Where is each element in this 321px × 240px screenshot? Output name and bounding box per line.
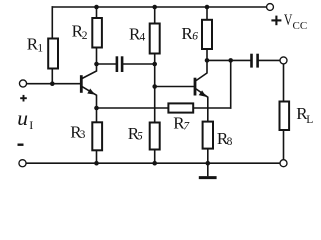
wire divider node to Q2 base <box>155 86 194 88</box>
wire R3 bottom lead <box>96 150 98 163</box>
node Q1 collector <box>94 62 99 67</box>
resistor R7 <box>168 103 193 112</box>
wire R3 top lead <box>96 108 98 122</box>
wire R5 bottom lead <box>154 150 156 164</box>
wire C1 left <box>97 63 116 65</box>
wire input to Q1 base <box>27 83 81 85</box>
node top rail / R2 <box>94 5 99 10</box>
wire R1 top lead <box>51 7 53 39</box>
svg-text:6: 6 <box>192 31 198 43</box>
resistor R5 <box>150 123 160 150</box>
node Q1 emitter <box>94 106 99 111</box>
svg-text:3: 3 <box>80 129 86 141</box>
wire R2 top lead <box>96 7 98 18</box>
wire R2 bottom lead <box>96 48 98 65</box>
node R1 / input wire <box>50 81 55 86</box>
wire R8 bottom lead <box>207 149 209 164</box>
capacitor C2 <box>252 54 258 68</box>
terminal output top <box>280 57 287 64</box>
svg-text:u: u <box>17 106 28 130</box>
wire R7 right lead to feedback line <box>193 107 231 109</box>
capacitor C1 <box>117 56 122 72</box>
resistor R1 <box>48 39 58 69</box>
resistor RL <box>280 102 290 131</box>
node top rail / R4 <box>152 5 157 10</box>
wire C2 right to output terminal <box>259 59 280 61</box>
wire bottom rail <box>26 162 280 164</box>
node C1 / R4 column <box>152 62 157 67</box>
terminal input minus <box>19 160 26 167</box>
node Q2 base <box>152 84 157 89</box>
svg-text:V: V <box>284 12 293 29</box>
svg-text:L: L <box>306 114 313 126</box>
resistor R6 <box>202 20 212 49</box>
wire C1 right to R4 column <box>124 63 155 65</box>
label minus at input <box>18 143 24 145</box>
svg-text:5: 5 <box>137 131 143 143</box>
wire R6 top lead <box>206 7 208 20</box>
svg-text:4: 4 <box>140 32 146 44</box>
node top rail / R6 <box>205 5 210 10</box>
terminal +Vcc <box>267 4 274 11</box>
wire feedback vertical from output node <box>230 60 232 108</box>
resistor R3 <box>92 122 102 150</box>
svg-text:1: 1 <box>37 43 43 55</box>
resistor R8 <box>203 122 213 149</box>
svg-text:8: 8 <box>227 136 233 148</box>
node feedback tap <box>228 58 233 63</box>
svg-text:CC: CC <box>293 20 308 32</box>
node R3 bottom <box>94 161 99 166</box>
wire top supply rail <box>52 6 265 8</box>
wire R4 bottom to R5 top (bias divider column) <box>154 54 156 123</box>
label +Vcc <box>271 16 281 26</box>
svg-text:2: 2 <box>82 30 88 42</box>
resistor R2 <box>92 18 102 48</box>
transistor Q2 <box>195 60 208 121</box>
wire RL bottom lead <box>283 130 285 160</box>
transistor Q1 <box>81 64 96 108</box>
node Q2 collector <box>205 58 210 63</box>
node R5 bottom <box>152 161 157 166</box>
wire Q2 collector node to C2 <box>207 59 250 61</box>
wire R1 bottom lead <box>51 69 53 84</box>
node R8 / ground <box>206 161 211 166</box>
terminal input plus <box>19 80 26 87</box>
resistor R4 <box>150 24 160 54</box>
terminal output bottom <box>280 160 287 167</box>
wire RL top lead <box>283 64 285 102</box>
wire R4 top lead <box>154 7 156 24</box>
svg-text:I: I <box>29 118 33 132</box>
wire R6 bottom lead <box>206 49 208 60</box>
ground <box>199 163 217 177</box>
wire Q1 emitter node to R7 left lead <box>97 107 169 109</box>
label plus at input <box>20 95 27 102</box>
